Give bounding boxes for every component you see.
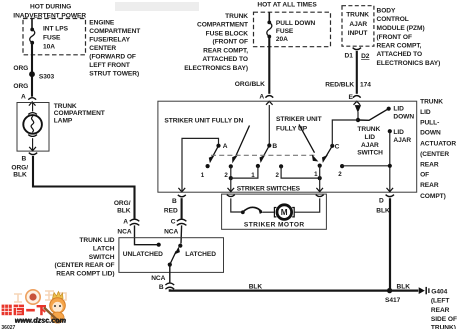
wire ORG/BLK lamp to latch switch — [33, 156, 135, 219]
svg-text:ATTACHED TO: ATTACHED TO — [377, 51, 423, 58]
label TRUNK COMPARTMENT LAMP — [54, 103, 105, 125]
svg-text:ORG/BLK: ORG/BLK — [235, 81, 265, 88]
svg-text:LID: LID — [365, 134, 376, 141]
svg-text:COMPARTMENT: COMPARTMENT — [89, 28, 140, 35]
svg-text:TRUNK: TRUNK — [54, 103, 77, 110]
svg-text:LID: LID — [420, 109, 431, 116]
svg-text:SWITCH: SWITCH — [357, 150, 383, 157]
svg-text:COMPT): COMPT) — [420, 193, 446, 200]
svg-text:2: 2 — [338, 171, 342, 178]
striker arrow to terminal 2 — [232, 126, 249, 164]
svg-text:INT LPS: INT LPS — [43, 26, 69, 33]
svg-text:CONTROL: CONTROL — [377, 16, 409, 23]
wire motor left lead — [231, 198, 241, 212]
svg-text:S303: S303 — [39, 74, 55, 81]
wire RED into latch box (latched contact) — [180, 225, 183, 243]
label STRIKER UNIT FULLY UP — [276, 116, 322, 132]
svg-text:D2: D2 — [361, 53, 370, 60]
junction node (B2/C1/motor) — [318, 176, 322, 180]
svg-text:AJAR: AJAR — [393, 137, 411, 144]
svg-text:B: B — [172, 198, 177, 205]
wire motor right lead — [295, 198, 320, 212]
connector at box bottom (motor right feed) — [316, 188, 324, 197]
ground G404 — [419, 287, 429, 294]
svg-text:TRUNK: TRUNK — [346, 12, 369, 19]
node terminal 2 of switch B — [276, 164, 284, 179]
node terminal 1 of switch B — [251, 164, 260, 179]
ajar switch blade (closed to LID DOWN) — [358, 109, 388, 120]
wire BLK from D to S417 — [389, 198, 391, 290]
wire latch common down — [169, 265, 171, 283]
connector D at box bottom — [379, 188, 394, 204]
svg-text:TRUNK: TRUNK — [420, 99, 443, 106]
svg-text:A: A — [223, 143, 228, 150]
node contact A — [216, 143, 227, 150]
splice S417 — [385, 288, 401, 304]
svg-text:TRUNK: TRUNK — [357, 126, 380, 133]
label TRUNK LID AJAR SWITCH — [357, 126, 383, 157]
svg-text:LAMP: LAMP — [54, 117, 73, 124]
wire fuse F1 top lead — [31, 19, 33, 30]
svg-text:LID: LID — [393, 106, 404, 113]
label TRUNK COMPARTMENT FUSE BLOCK (FRONT OF REAR COMPT, ATTACHED TO ELECTRONICS BAY) — [184, 13, 248, 72]
striker arrow to terminal 1 of switch C — [299, 125, 318, 162]
striker motor box — [222, 194, 327, 229]
svg-text:D1: D1 — [345, 53, 354, 60]
wire jumper to motor — [263, 211, 274, 213]
label PULL DOWN FUSE 20A — [276, 20, 316, 43]
svg-text:2: 2 — [224, 172, 228, 179]
svg-text:10A: 10A — [43, 44, 55, 51]
svg-text:RED/BLK: RED/BLK — [325, 81, 354, 88]
svg-text:UNLATCHED: UNLATCHED — [123, 251, 163, 258]
node LID DOWN contact — [387, 106, 415, 121]
svg-text:ORG: ORG — [13, 65, 28, 72]
mechanical link dashed line — [211, 154, 316, 156]
svg-text:SWITCH: SWITCH — [89, 254, 115, 261]
motor brush jumper — [241, 207, 263, 214]
connector A at lamp box top — [21, 94, 36, 106]
svg-text:FUSE: FUSE — [276, 28, 294, 35]
svg-text:INPUT: INPUT — [348, 30, 368, 37]
svg-text:A: A — [123, 218, 128, 225]
trunk lid ajar switch: actuation arrow — [355, 105, 361, 113]
label TRUNK LID LATCH SWITCH (CENTER REAR OF REAR COMPT LID) — [54, 237, 114, 277]
connector B below striker box (RED wire top) — [172, 188, 186, 205]
scan background tint patch — [115, 2, 199, 11]
fuse INT LPS FUSE 10A — [30, 28, 35, 45]
svg-text:ELECTRONICS BAY): ELECTRONICS BAY) — [184, 65, 248, 72]
svg-text:S417: S417 — [385, 297, 401, 304]
label ORG/ BLK — [114, 200, 131, 214]
label INT LPS FUSE 10A — [43, 26, 69, 51]
wire BLK to ground — [390, 290, 419, 292]
in-line connector B — [159, 283, 174, 291]
in-line connector A (NCA) — [117, 218, 139, 235]
splice S303 — [29, 71, 54, 80]
svg-text:PULL-: PULL- — [420, 119, 439, 126]
wire BLK bottom run to S417 — [170, 289, 390, 290]
label G404 (LEFT REAR SIDE OF TRUNK) — [431, 289, 457, 329]
svg-text:ELECTRONICS BAY): ELECTRONICS BAY) — [377, 60, 441, 67]
svg-text:TRUNK): TRUNK) — [431, 325, 456, 329]
svg-text:SIDE OF: SIDE OF — [431, 316, 457, 323]
svg-text:C: C — [171, 218, 176, 225]
wire B2 to C1 ground link — [281, 166, 320, 178]
svg-text:LATCH: LATCH — [93, 246, 115, 253]
svg-text:C: C — [335, 143, 340, 150]
svg-text:20A: 20A — [276, 36, 288, 43]
svg-text:HOT DURING: HOT DURING — [30, 3, 71, 10]
svg-text:RED: RED — [164, 208, 178, 215]
wire E to pivot — [357, 112, 359, 120]
svg-text:DOWN: DOWN — [393, 114, 414, 121]
wire A contact to B connector (L wire) — [182, 138, 219, 191]
trunk compartment lamp box — [17, 103, 49, 152]
junction node on ajar ground wire — [388, 164, 392, 168]
svg-text:COMPARTMENT: COMPARTMENT — [197, 21, 248, 28]
svg-text:2: 2 — [276, 172, 280, 179]
wire into latch box (unlatched contact) — [135, 225, 159, 244]
svg-text:B: B — [22, 156, 27, 163]
engine compartment fuse/relay center dashed box — [23, 19, 86, 55]
svg-text:www.dzsc.com: www.dzsc.com — [15, 316, 67, 325]
svg-text:NCA: NCA — [117, 228, 131, 235]
label HOT DURING INADVERTENT POWER — [13, 3, 86, 19]
node terminal 1 of switch C — [314, 164, 322, 178]
switch blade C (closed to contact C) — [322, 146, 332, 163]
svg-text:REAR: REAR — [431, 307, 450, 314]
label ENGINE COMPARTMENT FUSE/RELAY CENTER — [89, 20, 140, 78]
svg-text:1: 1 — [201, 172, 205, 179]
svg-text:TRUNK: TRUNK — [225, 13, 248, 20]
svg-text:REAR COMPT,: REAR COMPT, — [203, 48, 248, 55]
svg-text:FUSE BLOCK: FUSE BLOCK — [206, 30, 249, 37]
svg-text:REAR: REAR — [420, 182, 439, 189]
svg-text:STRIKER UNIT FULLY DN: STRIKER UNIT FULLY DN — [164, 118, 243, 125]
label BODY CONTROL MODULE (PZM) — [377, 8, 441, 68]
svg-text:STRIKER MOTOR: STRIKER MOTOR — [244, 221, 305, 228]
svg-text:COMPARTMENT: COMPARTMENT — [54, 110, 105, 117]
svg-text:A: A — [259, 93, 264, 100]
svg-text:A: A — [21, 94, 26, 101]
wire junction down to box edge — [230, 178, 232, 192]
svg-text:STRIKER UNIT: STRIKER UNIT — [276, 116, 322, 123]
wire RED — [181, 198, 183, 218]
svg-text:CENTER: CENTER — [89, 45, 116, 52]
in-line connector C (NCA) — [164, 218, 186, 235]
switch blade A (closed to contact A) — [209, 146, 219, 164]
node LID AJAR contact — [388, 129, 412, 144]
wire LID AJAR down to connector D — [389, 131, 391, 192]
svg-text:ACTUATOR: ACTUATOR — [420, 140, 456, 147]
fuse PULL DOWN FUSE 20A — [267, 21, 272, 39]
wire ORG/BLK inside box to contact B — [268, 105, 270, 146]
label TRUNK AJAR INPUT — [346, 12, 369, 37]
trunk lid latch switch box — [119, 238, 224, 273]
svg-text:REAR: REAR — [420, 161, 439, 168]
svg-text:STRIKER SWITCHES: STRIKER SWITCHES — [237, 185, 301, 192]
node terminal 1 of switch A — [201, 164, 210, 179]
svg-text:174: 174 — [360, 82, 371, 89]
svg-text:B: B — [272, 143, 277, 150]
wire fuse F2 top lead — [268, 12, 270, 22]
svg-text:AJAR: AJAR — [361, 142, 379, 149]
junction node (A2/B1/motor) — [229, 176, 233, 180]
node terminal 2 of switch A — [224, 164, 233, 179]
svg-text:OF: OF — [420, 172, 429, 179]
svg-text:BLK: BLK — [376, 208, 390, 215]
svg-text:BLK: BLK — [249, 284, 263, 291]
watermark: ring logo — [26, 290, 40, 304]
svg-text:BLK: BLK — [117, 207, 131, 214]
switch blade B (closed to contact B) — [260, 146, 270, 164]
svg-text:LEFT FRONT: LEFT FRONT — [89, 62, 130, 69]
connector D1 D2 below BCM — [345, 48, 370, 61]
body control module dashed box (TRUNK AJAR INPUT) — [342, 6, 374, 47]
lamp E1 bulb symbol — [23, 103, 42, 151]
connector B below lamp box — [22, 153, 38, 163]
svg-text:G404: G404 — [431, 289, 447, 296]
svg-text:(CENTER REAR OF: (CENTER REAR OF — [54, 262, 114, 269]
svg-text:(FRONT OF: (FRONT OF — [213, 39, 248, 46]
svg-text:BLK: BLK — [397, 284, 411, 291]
svg-text:BLK: BLK — [13, 172, 27, 179]
wire C1 down to box edge — [319, 166, 321, 192]
svg-text:NCA: NCA — [164, 228, 178, 235]
svg-text:PULL DOWN: PULL DOWN — [276, 20, 316, 27]
svg-text:BODY: BODY — [377, 8, 397, 15]
node LATCHED contact — [178, 244, 216, 259]
svg-text:36027: 36027 — [1, 325, 15, 329]
svg-text:AJAR: AJAR — [349, 21, 367, 28]
svg-text:D: D — [379, 197, 384, 204]
label TRUNK LID PULL-DOWN ACTUATOR (CENTER REAR OF REAR COMPT) — [420, 99, 456, 200]
label ORG/ BLK — [11, 165, 28, 179]
svg-text:TRUNK LID: TRUNK LID — [79, 237, 114, 244]
node contact C — [330, 143, 339, 150]
svg-text:1: 1 — [314, 171, 318, 178]
wire RED/BLK 174 — [356, 51, 358, 94]
svg-text:(FRONT OF: (FRONT OF — [377, 34, 412, 41]
svg-text:HOT AT ALL TIMES: HOT AT ALL TIMES — [257, 2, 317, 9]
svg-text:M: M — [281, 208, 288, 217]
wire junction to B1 — [231, 166, 258, 178]
svg-text:ENGINE: ENGINE — [89, 20, 115, 27]
svg-text:ATTACHED TO: ATTACHED TO — [202, 56, 248, 63]
watermark: mascot — [44, 292, 65, 324]
node UNLATCHED contact — [123, 243, 163, 259]
wire C2 to ajar ground wire — [342, 165, 390, 167]
svg-text:B: B — [159, 284, 164, 291]
svg-text:LID: LID — [393, 129, 404, 136]
wire ORG fuse to lamp — [31, 43, 33, 97]
watermark: faint glyphs — [14, 291, 66, 302]
svg-text:ORG/: ORG/ — [114, 200, 131, 207]
svg-text:REAR COMPT LID): REAR COMPT LID) — [56, 271, 114, 278]
wire ORG/BLK fuse to striker box — [268, 37, 270, 94]
node terminal 2 of switch C — [338, 164, 344, 178]
connector A at striker box top — [259, 93, 273, 104]
svg-text:(LEFT: (LEFT — [431, 297, 449, 304]
node contact B — [267, 143, 277, 150]
svg-text:FUSE: FUSE — [43, 35, 61, 42]
svg-text:MODULE (PZM): MODULE (PZM) — [377, 25, 425, 32]
svg-text:STRUT TOWER): STRUT TOWER) — [89, 71, 139, 78]
svg-text:ORG: ORG — [13, 83, 28, 90]
svg-text:(FORWARD OF: (FORWARD OF — [89, 53, 136, 60]
wire pivot to contact C of striker unit — [332, 120, 358, 146]
watermark: red chinese text — [2, 305, 46, 316]
svg-text:DOWN: DOWN — [420, 130, 441, 137]
striker unit / trunk lid pull-down actuator box — [158, 101, 417, 192]
connector at box bottom (motor left feed) — [227, 188, 235, 197]
node ajar switch pivot — [356, 118, 360, 122]
motor M1 STRIKER MOTOR — [274, 205, 294, 220]
svg-text:FUSE/RELAY: FUSE/RELAY — [89, 36, 130, 43]
latch switch blade (closed to LATCHED) — [168, 247, 180, 267]
trunk compartment fuse block dashed box — [254, 12, 331, 47]
svg-text:LATCHED: LATCHED — [185, 251, 216, 258]
wire terminal A2 to junction and down to motor — [230, 166, 232, 178]
connector E at striker box top — [349, 94, 361, 105]
svg-text:NCA: NCA — [151, 275, 165, 282]
svg-text:(CENTER: (CENTER — [420, 151, 449, 158]
svg-text:REAR COMPT,: REAR COMPT, — [377, 43, 422, 50]
